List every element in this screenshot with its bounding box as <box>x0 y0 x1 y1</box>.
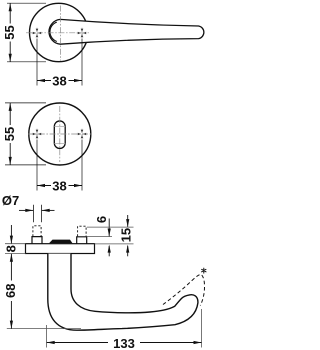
slot tangent lines <box>54 127 65 144</box>
dimension 8 <box>4 225 26 254</box>
screw hidden outline right <box>78 226 87 236</box>
dimension 55 (top rose) <box>2 3 46 62</box>
lug left <box>32 237 42 244</box>
hub (filled) <box>49 240 73 244</box>
lug right <box>77 237 87 244</box>
svg-text:8: 8 <box>4 245 19 252</box>
lever (white fill over circle) <box>49 19 204 44</box>
dimension 133 <box>47 309 202 350</box>
svg-text:55: 55 <box>2 25 17 39</box>
screw right <box>77 28 88 39</box>
svg-text:Ø7: Ø7 <box>2 193 19 208</box>
screw left <box>32 129 43 140</box>
dimension 68 <box>3 254 81 329</box>
rose circle <box>30 3 88 61</box>
horizontal centerline <box>26 32 89 34</box>
svg-text:38: 38 <box>52 73 66 88</box>
vertical centerline <box>59 106 61 162</box>
svg-text:68: 68 <box>3 284 18 298</box>
svg-text:55: 55 <box>2 127 17 141</box>
screw right <box>77 129 88 140</box>
svg-text:6: 6 <box>94 216 109 223</box>
vertical centerline <box>59 6 61 61</box>
dimension 15 <box>87 215 134 256</box>
screw left <box>32 28 43 39</box>
dimension 38 (key rose) <box>37 140 82 194</box>
star footnote <box>202 268 206 273</box>
dashed alternative tip <box>163 274 205 305</box>
svg-text:38: 38 <box>52 178 66 193</box>
dimension 55 (key rose) <box>2 103 46 165</box>
dimension 6 <box>87 216 112 256</box>
handle side outline <box>48 254 198 331</box>
neck inner arc <box>50 22 57 41</box>
dimension 38 (top rose) <box>37 39 82 89</box>
dimension Ø7 <box>2 193 55 222</box>
key rose circle <box>29 103 91 165</box>
svg-text:133: 133 <box>113 336 135 350</box>
svg-text:15: 15 <box>118 228 133 242</box>
keyhole slot <box>54 121 65 149</box>
horizontal centerline <box>28 133 92 135</box>
screw hidden outline left <box>33 226 41 237</box>
rose plate <box>26 244 95 254</box>
